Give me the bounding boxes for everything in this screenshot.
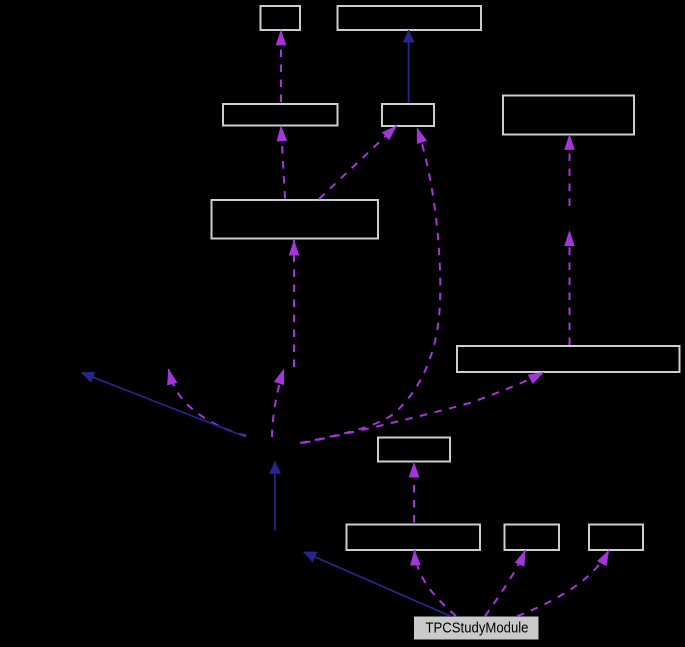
node box E (row2 right tall) (503, 96, 634, 135)
node box H (row5 small) (378, 438, 450, 462)
node box F (row3 tall) (212, 200, 379, 239)
node box J (row6 middle) (505, 525, 560, 551)
wire edge hub to node1 (dashed) (272, 369, 284, 437)
node box K (row6 right) (589, 525, 643, 551)
wire edge hub to G (dashed curve) (303, 372, 544, 443)
node box I (row6 left) (347, 525, 481, 551)
wire edge TPCStudyModule to K (dashed curve) (517, 550, 609, 616)
wire edge F to D (dashed) (319, 126, 397, 199)
node box B (top right wide) (338, 6, 482, 30)
wire edge hub2 to hub (solid blue) (274, 461, 276, 530)
node box D (row2 middle) (382, 104, 434, 126)
wire edge G to node2 (dashed) (569, 231, 571, 345)
wire edge hub to D (long dashed curve) (300, 128, 440, 443)
wire edge TPCStudyModule to I (dashed curve) (415, 550, 457, 616)
svg-text:TPCStudyModule: TPCStudyModule (426, 620, 529, 637)
wire edge F to C (dashed) (281, 126, 285, 199)
wire edge hub to left node (dashed curve) (169, 369, 247, 436)
node box G (row4 wide right) (457, 346, 680, 372)
wire edge node2 to E (dashed) (569, 134, 571, 206)
wire edge hub to far left node (solid blue) (82, 373, 247, 437)
wire edge TPCStudyModule to hub2 (solid blue) (304, 552, 452, 616)
node box A (top left small) (261, 6, 301, 30)
wire edge I to H (dashed) (413, 462, 415, 523)
node box TPCStudyModule (grey filled) (415, 617, 539, 639)
node box C (row2 left) (223, 104, 338, 126)
wire edge node1 to F (dashed) (293, 240, 295, 367)
wire edge D to B (solid blue) (408, 30, 410, 103)
wire edge C to A (dashed) (280, 30, 282, 102)
wire edge TPCStudyModule to J (dashed curve) (485, 550, 525, 616)
